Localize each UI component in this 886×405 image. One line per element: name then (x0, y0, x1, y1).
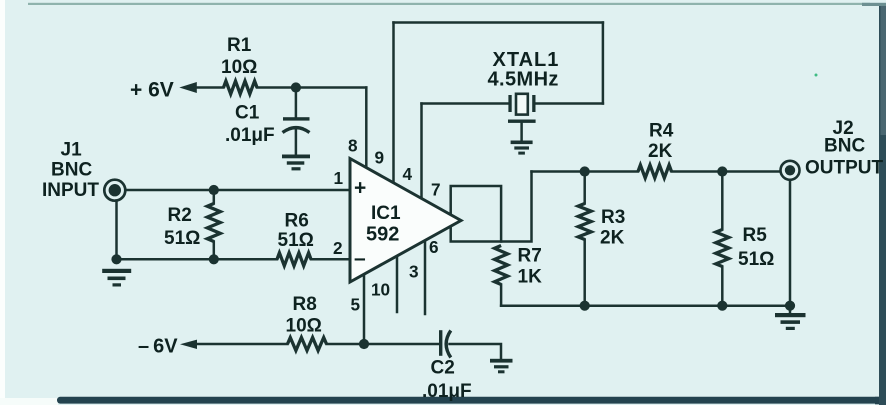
svg-text:.01μF: .01μF (422, 381, 472, 402)
node junction ground bus (785, 301, 795, 311)
+6V arrow (179, 82, 197, 93)
wire top loop horizontal (394, 21, 603, 24)
svg-text:.01μF: .01μF (225, 125, 275, 146)
wire pin 6 output (451, 172, 532, 242)
wire pin 10 stub (396, 255, 399, 312)
wire crystal case stub (520, 123, 523, 141)
svg-text:C2: C2 (431, 358, 455, 379)
ground below crystal (511, 141, 533, 155)
svg-text:– 6V: – 6V (138, 336, 178, 358)
svg-text:10: 10 (371, 280, 390, 300)
svg-text:BNC: BNC (824, 136, 865, 157)
svg-text:9: 9 (375, 148, 385, 168)
wire +6V rail to R1 (196, 86, 224, 89)
svg-text:8: 8 (348, 136, 358, 156)
svg-text:R7: R7 (518, 246, 542, 267)
-6V arrow (180, 340, 197, 349)
svg-text:7: 7 (431, 180, 441, 200)
wire ground stub at output (789, 306, 792, 313)
wire C1 bottom lead to ground (295, 129, 298, 155)
capacitor C1 .01uF (283, 117, 310, 132)
svg-text:4.5MHz: 4.5MHz (488, 69, 559, 91)
BNC connector J2 (781, 161, 800, 180)
wire J1 drop (115, 201, 118, 260)
wire R5 top lead (721, 172, 724, 230)
svg-text:5: 5 (351, 295, 361, 315)
svg-text:2: 2 (333, 238, 343, 258)
wire R2 top lead (213, 190, 216, 204)
wire pin 8 vertical (365, 88, 368, 170)
wire R5 bottom lead (721, 267, 724, 306)
wire top loop right vertical (602, 23, 605, 104)
wire R8 to pin 5 node (327, 343, 365, 346)
resistor R5 51ohm (716, 230, 729, 267)
svg-text:4: 4 (403, 164, 413, 184)
crystal XTAL1 4.5MHz (508, 94, 536, 123)
svg-text:592: 592 (366, 224, 399, 246)
ground at output bus (775, 313, 806, 330)
node junction R3 bottom (580, 301, 590, 311)
resistor R7 1K (495, 246, 508, 285)
wire top output bus (532, 170, 639, 173)
svg-text:INPUT: INPUT (42, 180, 99, 201)
svg-text:R8: R8 (293, 294, 317, 315)
svg-text:R2: R2 (168, 205, 192, 226)
wire R6 to pin 2 (311, 258, 349, 261)
resistor R8 10ohm (288, 338, 327, 351)
svg-text:R3: R3 (601, 207, 625, 228)
svg-text:3: 3 (409, 262, 419, 282)
BNC connector J1 (104, 180, 125, 201)
svg-text:BNC: BNC (51, 160, 92, 181)
resistor R2 51ohm (207, 204, 220, 242)
svg-text:51Ω: 51Ω (738, 249, 774, 270)
wire lower input bus (117, 258, 278, 261)
capacitor C2 .01uF (439, 330, 451, 357)
svg-text:J1: J1 (61, 140, 83, 161)
wire -6V rail to R8 (197, 343, 288, 346)
wire pin 4 vertical (420, 104, 423, 201)
svg-text:10Ω: 10Ω (221, 57, 257, 78)
node junction J1/R2 top (209, 185, 219, 195)
node junction R5 top (717, 166, 727, 176)
node A junction R1/C1 (291, 82, 301, 92)
resistor R6 51ohm (277, 253, 311, 266)
svg-text:IC1: IC1 (371, 203, 401, 224)
ground below J1 (102, 269, 131, 287)
svg-text:R1: R1 (227, 35, 252, 56)
svg-text:R5: R5 (743, 225, 768, 246)
wire R3 bottom lead (583, 240, 586, 306)
wire R3 top lead (583, 172, 586, 204)
svg-text:C1: C1 (235, 103, 260, 124)
svg-text:+ 6V: + 6V (130, 79, 174, 102)
wire pin 3 stub (424, 240, 427, 314)
svg-text:10Ω: 10Ω (286, 316, 322, 337)
wire J1 to pin 1 (125, 189, 349, 192)
svg-text:2K: 2K (648, 141, 673, 162)
wire crystal left lead (422, 102, 509, 105)
resistor R3 2K (578, 204, 591, 240)
svg-text:R6: R6 (285, 211, 309, 232)
wire C2 to ground corner (450, 344, 502, 359)
wire R4 to J2 (672, 170, 781, 173)
node junction pin5 (359, 339, 369, 349)
wire R1 to node A (257, 86, 296, 89)
wire R2 bottom lead (213, 242, 216, 260)
svg-text:+: + (354, 177, 366, 200)
svg-text:51Ω: 51Ω (164, 228, 200, 249)
node junction R2 bottom (209, 254, 219, 264)
wire pin 7 loop (451, 186, 501, 242)
svg-text:OUTPUT: OUTPUT (805, 158, 884, 179)
svg-text:R4: R4 (649, 121, 674, 142)
svg-text:6: 6 (429, 237, 439, 257)
wire crystal right lead (535, 102, 603, 105)
node junction J1 drop (111, 254, 121, 264)
svg-text:–: – (354, 247, 366, 270)
resistor R4 2K (638, 165, 672, 178)
wire R7 bottom lead to bus (500, 285, 503, 306)
ground right of C2 (490, 359, 513, 374)
svg-text:51Ω: 51Ω (278, 230, 314, 251)
svg-text:2K: 2K (600, 228, 625, 249)
stray green dot (815, 74, 818, 77)
node junction R5 bottom (717, 301, 727, 311)
wire pin 5 vertical (363, 273, 366, 344)
wire pin5 node to C2 (364, 343, 439, 346)
op-amp IC1 592 triangle (350, 159, 461, 283)
wire bottom output bus (501, 304, 790, 307)
wire node A to pin 8 corner (296, 86, 366, 89)
wire C1 top lead (295, 88, 298, 118)
wire pin 9 vertical to top loop (392, 23, 395, 185)
node junction R3 top (580, 166, 590, 176)
svg-text:1: 1 (334, 168, 344, 188)
wire J2 drop (789, 181, 792, 306)
svg-text:1K: 1K (518, 267, 543, 288)
ground below C1 (282, 155, 310, 171)
resistor R1 10ohm (224, 81, 258, 94)
